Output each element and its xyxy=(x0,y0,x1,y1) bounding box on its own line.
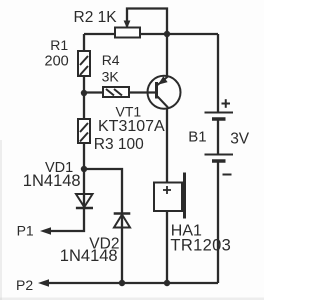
svg-text:R3 100: R3 100 xyxy=(94,136,144,153)
svg-text:P1: P1 xyxy=(17,223,34,239)
svg-text:R4: R4 xyxy=(102,52,120,68)
svg-text:1N4148: 1N4148 xyxy=(60,247,118,265)
svg-text:TR1203: TR1203 xyxy=(170,237,231,255)
svg-text:B1: B1 xyxy=(188,128,206,145)
svg-text:1N4148: 1N4148 xyxy=(23,172,81,190)
svg-text:R2 1K: R2 1K xyxy=(74,9,118,26)
svg-text:KT3107A: KT3107A xyxy=(98,118,165,135)
svg-text:3V: 3V xyxy=(230,131,250,148)
svg-text:200: 200 xyxy=(45,54,69,70)
svg-text:3K: 3K xyxy=(102,68,120,84)
svg-text:R1: R1 xyxy=(50,37,68,53)
svg-text:P2: P2 xyxy=(16,277,33,293)
